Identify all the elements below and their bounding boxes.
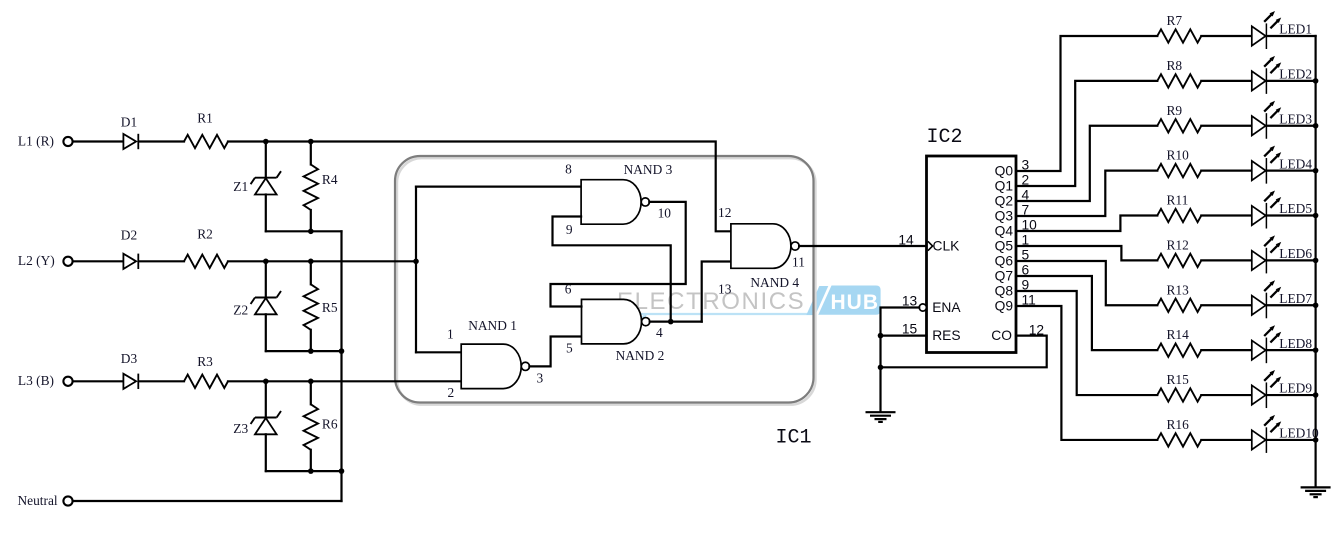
wire R5 to bottom rail <box>310 330 312 351</box>
pin 14 label <box>898 232 914 247</box>
pin 7 label (Q3) <box>1022 203 1030 218</box>
svg-text:D2: D2 <box>121 227 137 242</box>
svg-text:LED2: LED2 <box>1279 67 1312 82</box>
wire Z2 branch from row <box>265 261 267 297</box>
LED LED10 <box>1252 415 1319 453</box>
pin 13 label (ENA) <box>902 293 918 308</box>
NAND gate NAND4 (U1d) <box>731 224 800 290</box>
NAND gate NAND2 (U1b) <box>582 299 665 363</box>
junction NAND2 output feedback node <box>668 319 674 325</box>
svg-text:NAND 1: NAND 1 <box>468 318 517 333</box>
junction LED4 on cathode bus <box>1313 168 1319 174</box>
svg-text:NAND 2: NAND 2 <box>616 348 665 363</box>
pin 1 label <box>447 326 454 341</box>
svg-text:D1: D1 <box>121 115 137 130</box>
svg-text:12: 12 <box>1029 323 1044 338</box>
junction RES on ground bus <box>878 333 884 339</box>
wire NAND4 output pin 11 to IC2 CLK <box>799 245 926 247</box>
svg-text:CLK: CLK <box>933 239 961 254</box>
wire feedback to NAND3 pin 9 <box>553 217 671 322</box>
svg-text:NAND 4: NAND 4 <box>750 275 799 290</box>
svg-text:R6: R6 <box>322 417 338 432</box>
resistor R11 <box>1157 193 1201 223</box>
wire R4 to bottom rail <box>310 210 312 231</box>
LED LED9 <box>1252 370 1313 408</box>
pin 9 label <box>566 222 573 237</box>
LED LED7 <box>1252 280 1313 318</box>
pin 12 label <box>718 205 731 220</box>
svg-text:1: 1 <box>447 326 454 341</box>
wire neutral row <box>73 500 342 502</box>
wire L3 terminal to diode D3 <box>73 380 124 382</box>
pin 6 label <box>565 282 572 297</box>
svg-text:RES: RES <box>932 328 960 343</box>
wire NAND2 output to NAND4 pin 13 <box>702 262 731 322</box>
svg-text:Q1: Q1 <box>995 179 1013 194</box>
wire LED8 cathode to bus <box>1266 349 1315 351</box>
Q5 pin name <box>995 239 1014 254</box>
svg-text:R10: R10 <box>1167 148 1190 163</box>
wire Q7 pin stub and riser to LED row 8 <box>1016 276 1157 350</box>
Q7 pin name <box>995 269 1013 284</box>
wire R16 to LED10 <box>1201 439 1252 441</box>
LED LED1 <box>1252 11 1312 49</box>
wire Z3 to bottom rail <box>265 434 267 471</box>
ground symbol under IC2 <box>866 412 896 422</box>
wire LED cathode bus vertical <box>1314 36 1316 487</box>
svg-text:R8: R8 <box>1167 58 1183 73</box>
wire Q0 pin stub and riser to LED row 1 <box>1016 36 1157 171</box>
svg-text:R4: R4 <box>322 172 338 187</box>
svg-text:R11: R11 <box>1167 193 1189 208</box>
svg-text:LED4: LED4 <box>1279 156 1312 171</box>
junction LED7 on cathode bus <box>1313 302 1319 308</box>
diode D3 <box>121 351 139 389</box>
svg-text:IC2: IC2 <box>927 126 963 149</box>
svg-text:LED3: LED3 <box>1279 111 1312 126</box>
junction L3 rail on neutral bus <box>339 468 345 474</box>
wire ENA to ground bus <box>881 308 920 368</box>
resistor R4 <box>304 165 338 211</box>
wire Q2 pin stub and riser to LED row 3 <box>1016 126 1157 201</box>
junction CO return on ground bus <box>878 365 884 371</box>
resistor R10 <box>1157 148 1201 178</box>
zener diode Z2 <box>233 291 281 317</box>
wire Q9 pin stub and riser to LED row 10 <box>1016 306 1157 440</box>
pin 11 label <box>792 255 805 270</box>
Q4 pin name <box>995 224 1014 239</box>
wire LED1 cathode to bus <box>1266 35 1315 37</box>
svg-text:R1: R1 <box>197 111 213 126</box>
junction R6 top on row <box>308 379 314 385</box>
IC2 package box <box>927 156 1017 353</box>
svg-text:R2: R2 <box>197 227 213 242</box>
svg-text:4: 4 <box>656 325 663 340</box>
pin 13 label <box>718 282 732 297</box>
wire R8 to LED2 <box>1201 80 1252 82</box>
wire CO pin 12 return <box>881 336 1047 368</box>
pin 12 label (CO) <box>1029 323 1044 338</box>
wire R11 to LED5 <box>1201 214 1252 216</box>
svg-text:LED9: LED9 <box>1279 381 1312 396</box>
svg-text:8: 8 <box>565 161 572 176</box>
wire R12 to LED6 <box>1201 259 1252 261</box>
LED LED5 <box>1252 191 1313 229</box>
LED LED2 <box>1252 56 1312 94</box>
pin 6 label (Q7) <box>1022 263 1030 278</box>
junction R4 top on row <box>308 139 314 145</box>
svg-text:5: 5 <box>1022 248 1030 263</box>
svg-text:CO: CO <box>991 328 1012 343</box>
junction R5 top on row <box>308 259 314 265</box>
Q2 pin name <box>995 194 1013 209</box>
junction LED9 on cathode bus <box>1313 392 1319 398</box>
Q8 pin name <box>995 284 1014 299</box>
svg-text:9: 9 <box>566 222 573 237</box>
terminal L2 input <box>18 253 73 268</box>
svg-text:11: 11 <box>1022 293 1036 308</box>
svg-text:Q2: Q2 <box>995 194 1013 209</box>
wire Q3 pin stub and riser to LED row 4 <box>1016 171 1157 216</box>
junction LED8 on cathode bus <box>1313 347 1319 353</box>
pin 10 label <box>658 206 672 221</box>
svg-text:R16: R16 <box>1167 417 1190 432</box>
wire R5 branch from row <box>310 261 312 284</box>
wire R9 to LED3 <box>1201 125 1252 127</box>
svg-text:14: 14 <box>898 232 914 247</box>
junction node L2 inside IC1 <box>413 259 419 265</box>
wire to NAND1 pin 1 <box>416 351 461 353</box>
svg-text:10: 10 <box>658 206 672 221</box>
junction Z3 top on row <box>263 379 269 385</box>
resistor R1 <box>184 111 228 149</box>
svg-text:LED1: LED1 <box>1279 22 1312 37</box>
LED LED3 <box>1252 101 1313 139</box>
wire Z1 to bottom rail <box>265 195 267 232</box>
resistor R14 <box>1157 327 1201 357</box>
svg-text:Q6: Q6 <box>995 254 1014 269</box>
junction R5 bottom on rail <box>308 348 314 354</box>
wire L2 row into IC1 <box>228 260 416 262</box>
pin 2 label (Q1) <box>1022 173 1030 188</box>
svg-text:L3 (B): L3 (B) <box>18 373 54 388</box>
svg-text:3: 3 <box>1022 158 1030 173</box>
ground symbol right <box>1301 487 1331 497</box>
wire R6 branch from row <box>310 381 312 404</box>
wire diode D3 to resistor R3 <box>140 380 184 382</box>
svg-text:LED6: LED6 <box>1279 246 1312 261</box>
wire LED10 cathode to bus <box>1266 439 1315 441</box>
svg-text:ELECTRONICS: ELECTRONICS <box>617 288 805 315</box>
diode D1 <box>121 115 139 150</box>
junction LED10 on cathode bus <box>1313 437 1319 443</box>
RES pin name <box>932 328 960 343</box>
wire Q8 pin stub and riser to LED row 9 <box>1016 291 1157 395</box>
wire LED4 cathode to bus <box>1266 170 1315 172</box>
wire R13 to LED7 <box>1201 304 1252 306</box>
bottom rail under Z3 and R6 <box>266 470 342 472</box>
svg-text:11: 11 <box>792 255 805 270</box>
resistor R16 <box>1157 417 1201 447</box>
svg-text:5: 5 <box>566 341 573 356</box>
svg-text:D3: D3 <box>121 351 138 366</box>
Q6 pin name <box>995 254 1014 269</box>
resistor R8 <box>1157 58 1201 88</box>
wire Q4 pin stub and riser to LED row 5 <box>1016 216 1157 231</box>
svg-text:IC1: IC1 <box>775 427 811 450</box>
wire NAND2 output pin 4 <box>650 321 702 323</box>
wire L3 row to NAND1 pin 2 <box>228 380 461 382</box>
wire diode D2 to resistor R2 <box>140 260 184 262</box>
resistor R6 <box>304 404 338 450</box>
resistor R2 <box>184 227 228 268</box>
svg-text:13: 13 <box>902 293 918 308</box>
terminal L3 input <box>18 373 73 388</box>
svg-text:R15: R15 <box>1167 372 1190 387</box>
pin 15 label (RES) <box>902 321 918 336</box>
svg-text:HUB: HUB <box>831 291 880 314</box>
wire to NAND3 pin 8 <box>416 186 581 188</box>
svg-text:LED7: LED7 <box>1279 291 1312 306</box>
watermark Electronics Hub logo <box>616 286 881 324</box>
svg-text:Q9: Q9 <box>995 299 1014 314</box>
svg-text:Neutral: Neutral <box>18 493 58 508</box>
zener diode Z3 <box>233 411 281 436</box>
ENA bubble <box>919 304 926 311</box>
terminal L1 input <box>18 133 73 148</box>
wire Z3 branch from row <box>265 381 267 417</box>
svg-text:R13: R13 <box>1167 282 1190 297</box>
wire neutral bus vertical <box>340 231 342 501</box>
svg-text:6: 6 <box>1022 263 1030 278</box>
pin 5 label (Q6) <box>1022 248 1030 263</box>
svg-text:Q5: Q5 <box>995 239 1014 254</box>
wire R10 to LED4 <box>1201 170 1252 172</box>
svg-text:R5: R5 <box>322 300 338 315</box>
svg-text:13: 13 <box>718 282 732 297</box>
resistor R5 <box>304 284 338 330</box>
svg-text:R3: R3 <box>197 354 213 369</box>
zener diode Z1 <box>233 171 281 194</box>
svg-text:Z3: Z3 <box>233 421 248 436</box>
resistor R15 <box>1157 372 1201 402</box>
svg-text:L2 (Y): L2 (Y) <box>18 253 55 268</box>
svg-text:R7: R7 <box>1167 13 1183 28</box>
svg-text:Q3: Q3 <box>995 209 1014 224</box>
svg-text:R9: R9 <box>1167 103 1183 118</box>
wire RES to ground bus <box>881 335 927 337</box>
bottom rail under Z1 and R4 <box>266 230 342 232</box>
LED LED6 <box>1252 235 1313 273</box>
wire R4 branch from row <box>310 142 312 165</box>
resistor R3 <box>184 354 228 388</box>
svg-text:2: 2 <box>1022 173 1030 188</box>
svg-text:Q8: Q8 <box>995 284 1014 299</box>
svg-text:3: 3 <box>537 370 544 385</box>
wire Q5 pin stub and riser to LED row 6 <box>1016 246 1157 260</box>
resistor R9 <box>1157 103 1201 133</box>
resistor R12 <box>1157 237 1201 267</box>
pin 1 label (Q5) <box>1022 233 1030 248</box>
wire Q6 pin stub and riser to LED row 7 <box>1016 261 1157 305</box>
junction LED5 on cathode bus <box>1313 213 1319 219</box>
wire LED9 cathode to bus <box>1266 394 1315 396</box>
wire ground stem IC2 <box>879 367 881 411</box>
IC1 label <box>775 427 811 450</box>
svg-text:4: 4 <box>1022 188 1030 203</box>
CLK pin name <box>933 239 961 254</box>
wire L2 terminal to diode D2 <box>73 260 124 262</box>
svg-text:R12: R12 <box>1167 237 1189 252</box>
pin 2 label <box>448 385 455 400</box>
junction R6 bottom on rail <box>308 468 314 474</box>
junction R4 bottom on rail <box>308 229 314 235</box>
svg-text:LED5: LED5 <box>1279 201 1312 216</box>
svg-text:Q4: Q4 <box>995 224 1014 239</box>
pin 8 label <box>565 161 572 176</box>
NAND gate NAND1 (U1a) <box>461 318 529 389</box>
svg-text:Z2: Z2 <box>233 302 248 317</box>
junction LED3 on cathode bus <box>1313 123 1319 129</box>
pin 5 label <box>566 341 573 356</box>
wire Z2 to bottom rail <box>265 314 267 351</box>
svg-text:R14: R14 <box>1167 327 1190 342</box>
wire R7 to LED1 <box>1201 35 1252 37</box>
wire Q1 pin stub and riser to LED row 2 <box>1016 81 1157 186</box>
svg-text:15: 15 <box>902 321 918 336</box>
svg-text:Q0: Q0 <box>995 164 1014 179</box>
wire L1 terminal to diode D1 <box>73 140 124 142</box>
junction LED2 on cathode bus <box>1313 78 1319 84</box>
wire LED7 cathode to bus <box>1266 304 1315 306</box>
ENA pin name <box>932 300 961 315</box>
svg-text:2: 2 <box>448 385 455 400</box>
pin 10 label (Q4) <box>1022 218 1038 233</box>
resistor R7 <box>1157 13 1201 43</box>
NAND gate NAND3 (U1c) <box>581 162 673 224</box>
wire Z1 branch from row <box>265 142 267 178</box>
pin 3 label (Q0) <box>1022 158 1030 173</box>
Q1 pin name <box>995 179 1013 194</box>
wire LED3 cathode to bus <box>1266 125 1315 127</box>
wire L2 junction vertical to NAND3 pin 8 and NAND1 pin 1 <box>415 187 417 353</box>
svg-text:NAND 3: NAND 3 <box>624 162 673 177</box>
svg-text:10: 10 <box>1022 218 1038 233</box>
terminal Neutral input <box>18 493 73 508</box>
wire LED5 cathode to bus <box>1266 214 1315 216</box>
junction LED6 on cathode bus <box>1313 258 1319 264</box>
diode D2 <box>121 227 139 269</box>
IC2 label <box>927 126 963 149</box>
svg-text:LED8: LED8 <box>1279 336 1312 351</box>
svg-text:ENA: ENA <box>932 300 961 315</box>
svg-text:1: 1 <box>1022 233 1030 248</box>
CO pin name <box>991 328 1012 343</box>
pin 4 label <box>656 325 663 340</box>
LED LED8 <box>1252 325 1313 363</box>
IC1 package outline box <box>395 156 815 405</box>
Q9 pin name <box>995 299 1014 314</box>
svg-text:9: 9 <box>1022 278 1030 293</box>
IC2 CLK input wedge <box>928 241 933 250</box>
svg-text:Q7: Q7 <box>995 269 1013 284</box>
junction Z2 top on row <box>263 259 269 265</box>
resistor R13 <box>1157 282 1201 312</box>
wire R6 to bottom rail <box>310 450 312 471</box>
wire LED2 cathode to bus <box>1266 80 1315 82</box>
wire R15 to LED9 <box>1201 394 1252 396</box>
LED LED4 <box>1252 146 1313 184</box>
Q3 pin name <box>995 209 1014 224</box>
pin 11 label (Q9) <box>1022 293 1036 308</box>
wire L1 row to NAND4 pin 12 vertical <box>228 142 731 232</box>
pin 9 label (Q8) <box>1022 278 1030 293</box>
svg-text:7: 7 <box>1022 203 1030 218</box>
wire NAND1 output pin 3 to NAND2 pin 5 <box>529 337 581 367</box>
wire diode D1 to resistor R1 <box>140 140 184 142</box>
wire LED6 cathode to bus <box>1266 259 1315 261</box>
svg-text:12: 12 <box>718 205 731 220</box>
junction Z1 top on row <box>263 139 269 145</box>
svg-text:L1 (R): L1 (R) <box>18 133 54 148</box>
wire NAND3 output pin 10 to NAND2 pin 6 <box>551 202 686 307</box>
pin 4 label (Q2) <box>1022 188 1030 203</box>
pin 3 label <box>537 370 544 385</box>
svg-text:Z1: Z1 <box>233 179 248 194</box>
junction L2 rail on neutral bus <box>339 348 345 354</box>
svg-text:LED10: LED10 <box>1279 426 1319 441</box>
wire R14 to LED8 <box>1201 349 1252 351</box>
bottom rail under Z2 and R5 <box>266 350 342 352</box>
Q0 pin name <box>995 164 1014 179</box>
